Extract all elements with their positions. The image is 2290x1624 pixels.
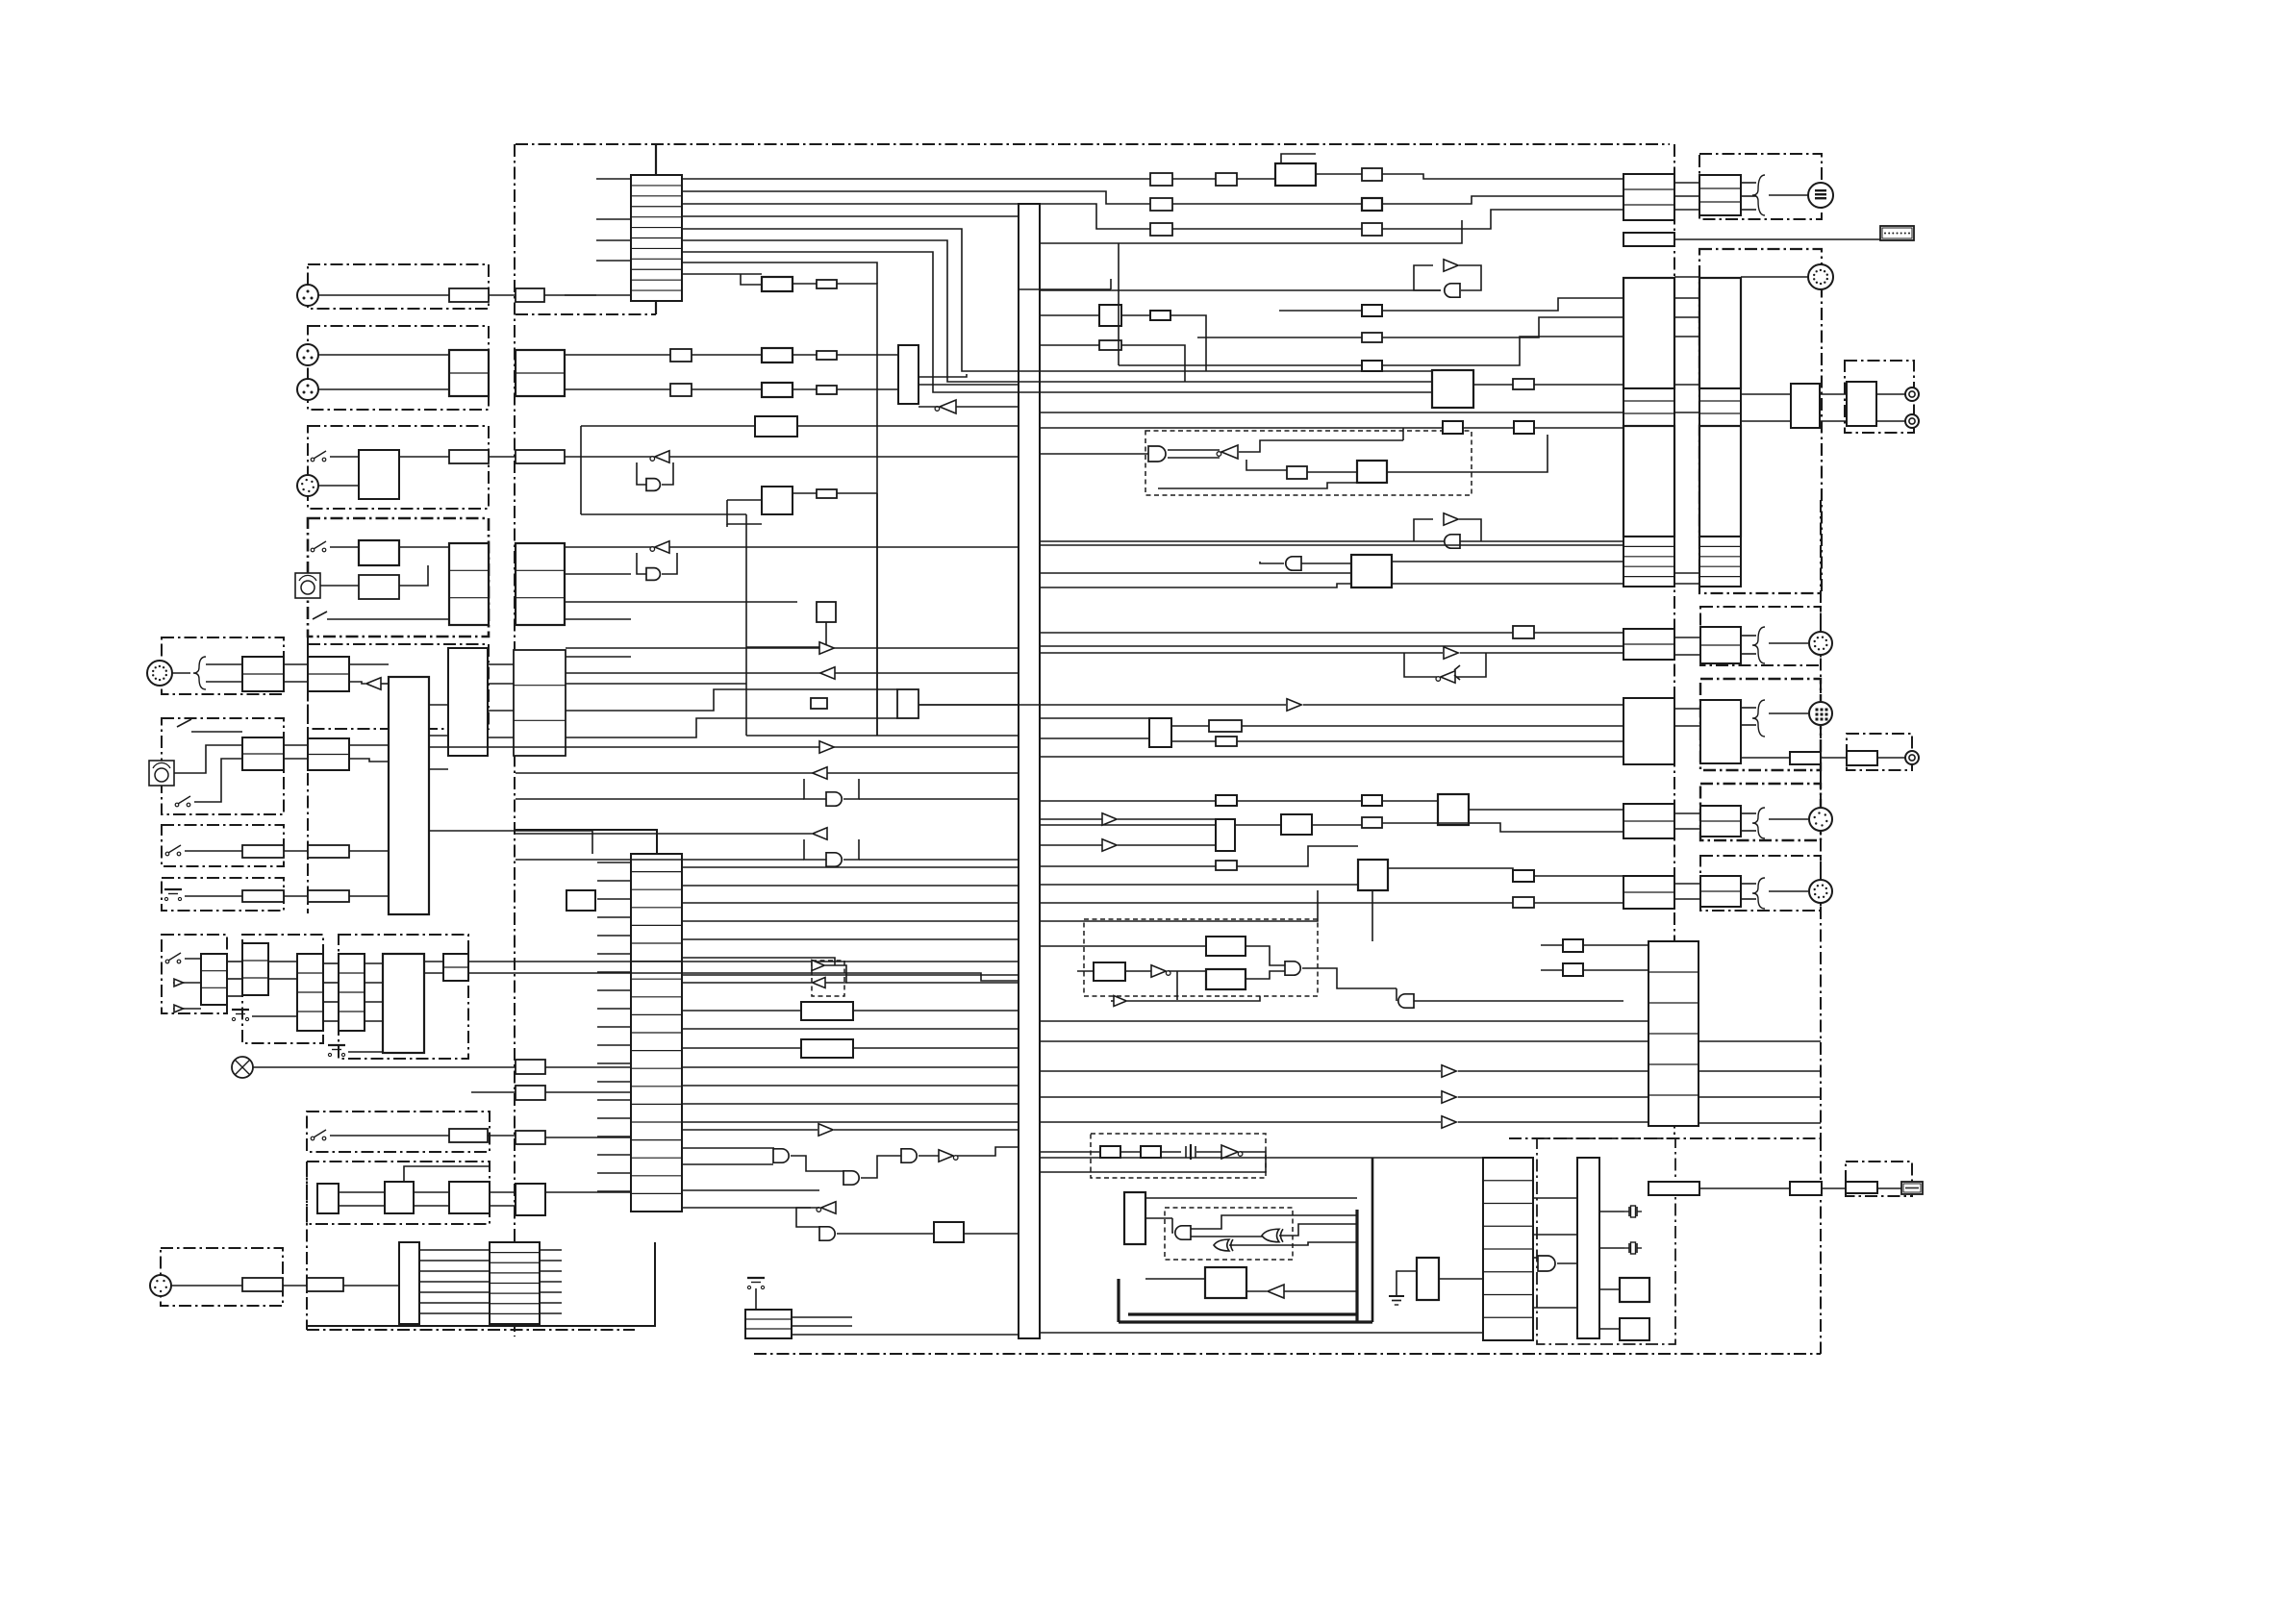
wire u2 stub <box>597 1081 631 1083</box>
record eq box <box>1432 370 1473 408</box>
wire row765 <box>746 735 1019 737</box>
wire vertical 776 <box>745 514 747 736</box>
wire dac in <box>741 274 762 285</box>
wire t1b <box>1172 178 1216 180</box>
wire lg in <box>1172 1218 1173 1233</box>
wire u2 stub <box>597 880 631 882</box>
wire j3c <box>692 388 762 390</box>
wire ka2 <box>227 978 242 980</box>
wire t2b <box>1237 178 1275 180</box>
wire u1 in1 <box>596 178 631 180</box>
wire lvl out <box>919 704 1019 706</box>
connector J16 rca <box>1905 387 1919 401</box>
wire vr1b <box>399 565 428 586</box>
wire dub out3 <box>381 683 389 685</box>
wire br c <box>1877 1187 1901 1189</box>
wire j1b <box>489 294 516 296</box>
wire mpx in <box>1040 945 1206 947</box>
wire rr7b <box>1382 800 1438 802</box>
input amp block <box>449 350 489 396</box>
wire auxr2 <box>566 683 746 685</box>
wire rr10b <box>1534 875 1623 877</box>
power sub box <box>1620 1318 1649 1340</box>
wire dly a <box>853 1010 1019 1012</box>
wire j2e <box>837 354 898 356</box>
wire u2 stub <box>597 1117 631 1119</box>
nand gate lg1 <box>1175 1226 1191 1239</box>
connector block P2 low1 <box>1700 627 1741 663</box>
wire mpx feed <box>1077 970 1094 972</box>
wire row323 r <box>1279 310 1362 312</box>
buffer rm1 <box>1444 260 1458 271</box>
wire ka3 <box>227 995 242 997</box>
wire rr6b <box>1237 800 1362 802</box>
wire row867 <box>516 833 812 835</box>
resistor br1 <box>1790 1182 1822 1195</box>
wire servo3 <box>1392 583 1623 585</box>
wire j2b <box>565 354 670 356</box>
mpx filter A <box>1206 937 1246 956</box>
wire gd double <box>1168 449 1220 451</box>
wire vertical 756 <box>726 524 728 527</box>
wire row520 in <box>727 499 762 501</box>
wire fanout6 <box>540 1302 562 1304</box>
pot VR1 <box>295 573 320 598</box>
wire pw5 <box>490 1191 516 1193</box>
wire cnt in <box>1145 1197 1357 1199</box>
connector block P1 rows <box>1623 174 1674 220</box>
wire s4b <box>284 850 308 852</box>
shield boundary xlr1 <box>308 264 489 309</box>
resistor r11 <box>516 1060 545 1074</box>
shield boundary out2 <box>1700 679 1821 770</box>
bus main <box>1019 204 1040 1338</box>
wire ke2 <box>424 972 443 974</box>
key block B <box>242 943 268 995</box>
wire row626 <box>565 601 797 603</box>
resistor rr4 <box>1209 720 1242 732</box>
wire u1 row6 <box>682 240 1432 382</box>
xor gate lg2 <box>1262 1229 1283 1242</box>
wire kd4 <box>365 1020 383 1022</box>
wire u1 row4 <box>682 215 1019 217</box>
inverter rv2 <box>1102 839 1117 851</box>
resistor rr5 <box>1216 737 1237 746</box>
wire j1c <box>544 294 631 296</box>
shield boundary out3 <box>1700 784 1821 840</box>
connector block P1 low3 <box>1623 804 1674 838</box>
wire j2d <box>793 354 817 356</box>
wire p3 box1 <box>1583 944 1648 946</box>
wire pll out <box>1316 173 1362 175</box>
wire j1 <box>318 294 449 296</box>
filter box <box>516 288 544 302</box>
resistor r5 <box>449 450 489 463</box>
keyboard encoder <box>383 954 424 1053</box>
IC U2 system control <box>631 854 682 1212</box>
mute symbol <box>313 612 327 619</box>
line out jack box <box>1847 751 1877 765</box>
wire out3 d <box>1741 830 1756 832</box>
switch S2 <box>311 541 326 552</box>
wire s6 <box>330 1135 449 1137</box>
wire r12b <box>545 1091 631 1093</box>
shield boundary right-main <box>1699 249 1822 593</box>
wire u2 right a6 <box>682 958 835 965</box>
wire b3 <box>348 1051 383 1053</box>
wire u2 right a10 <box>682 1047 801 1049</box>
meter box <box>1846 1182 1877 1193</box>
battery B2 <box>232 1010 249 1021</box>
buffer u2b <box>818 1124 833 1136</box>
motor box <box>1205 1267 1246 1298</box>
wire j7 <box>171 1285 242 1287</box>
wire p1p2 g <box>1674 384 1699 386</box>
wire m5b <box>1382 317 1623 337</box>
wire rca1 c <box>1877 757 1905 759</box>
wire out1 c <box>1741 635 1756 637</box>
connector J3 xlr <box>297 379 318 400</box>
wire led1 <box>185 958 201 960</box>
wire osc c <box>1196 1151 1221 1153</box>
wire dub out1 <box>349 663 389 665</box>
resistor r1 <box>670 349 692 362</box>
shield boundary out1 <box>1700 607 1821 665</box>
resistor rr10 <box>1513 870 1534 882</box>
rec out box <box>1791 384 1820 428</box>
wire u2 stub <box>597 1008 631 1010</box>
wire hp4 <box>1769 194 1808 196</box>
wire remote long <box>1674 238 1880 240</box>
wire out3 e <box>1769 818 1808 820</box>
wire mpx out <box>1302 968 1397 988</box>
inverter mon <box>935 400 956 413</box>
mpx box B <box>1094 962 1125 981</box>
phono amp block b <box>516 543 565 625</box>
battery B3 <box>328 1045 345 1057</box>
resistor r8 <box>308 845 349 858</box>
inverter di1 <box>1217 445 1238 459</box>
wire timer out3 <box>429 768 448 770</box>
wire row831b <box>859 798 1019 800</box>
buffer p32 <box>1442 1091 1456 1103</box>
counter box <box>1124 1192 1145 1244</box>
buffer g5b <box>939 1150 958 1162</box>
wire u2 stub <box>597 1136 631 1137</box>
wire auxr4 <box>566 718 897 737</box>
pot VR2 <box>149 761 174 786</box>
wire mpx loop <box>1176 971 1178 1000</box>
connector J17 rca <box>1905 414 1919 428</box>
inverter mid2 <box>820 667 835 679</box>
wire row433 l <box>581 425 755 427</box>
shield boundary meter <box>1537 1138 1675 1344</box>
wire s1 <box>330 456 359 458</box>
wire row674 <box>566 647 1019 649</box>
wire ke1 <box>424 961 443 962</box>
wire g6 out <box>837 1233 934 1235</box>
wire row768 <box>1040 737 1149 739</box>
wire rm3 loop <box>1414 519 1433 541</box>
connector J6 crosshair <box>232 1057 253 1078</box>
shield boundary battery-section <box>162 878 284 911</box>
wire p3 out1 <box>1699 1040 1821 1042</box>
wire diode out <box>1457 653 1486 677</box>
shield boundary din5 <box>161 1248 283 1306</box>
shield boundary headphone-top <box>1699 154 1822 219</box>
buffer osc <box>1221 1145 1243 1159</box>
wire bias out1 <box>1388 868 1513 876</box>
wire s1d <box>565 456 654 458</box>
shield boundary line-in <box>308 426 489 509</box>
wire j5 <box>172 672 190 674</box>
monitor block b <box>308 738 349 770</box>
connector J13 rca <box>1905 751 1919 764</box>
wire rm3 loop2 <box>1459 519 1481 541</box>
wire u2 stub <box>597 953 631 955</box>
wire u1 row5 <box>682 229 1432 371</box>
shield boundary xlr23 <box>308 326 489 410</box>
led D2 <box>173 1005 185 1012</box>
shield boundary pot-section <box>162 718 284 814</box>
wire mon <box>956 406 1019 408</box>
wire row831 <box>516 798 804 800</box>
board boundary main <box>516 143 1670 145</box>
wire pcb out1 <box>792 1316 852 1318</box>
wire row672 <box>1040 645 1623 647</box>
wire s6b <box>488 1135 516 1137</box>
wire u2 stub <box>597 1190 631 1192</box>
wire out1 a <box>1674 637 1699 638</box>
wire p32b <box>1458 1096 1648 1098</box>
wire u2 stub <box>597 971 631 973</box>
shield boundary key-section <box>242 935 323 1043</box>
connector J14 aux out <box>1809 808 1832 831</box>
wire kd1 <box>365 962 383 964</box>
wire vr1 <box>320 585 359 587</box>
key block D <box>339 954 365 1031</box>
wire j5b <box>206 681 242 683</box>
resistor t1 <box>1150 173 1172 186</box>
connector J7 din5 <box>150 1275 171 1296</box>
wire u2 right a17 <box>682 1147 774 1149</box>
wire s3 <box>194 759 242 802</box>
wire rm5 <box>1301 562 1351 564</box>
wire p3 out2 <box>1699 1070 1821 1072</box>
board boundary left vertical <box>514 144 516 1337</box>
wire t3b <box>1382 174 1623 179</box>
resistor midc <box>811 698 827 709</box>
wire s1e <box>669 456 1019 458</box>
timer block <box>389 677 429 914</box>
wire rcaP mid1 <box>1820 393 1847 395</box>
shield boundary out4 <box>1700 856 1821 911</box>
resistor t8 <box>817 280 837 288</box>
display block <box>1577 1158 1599 1338</box>
aux block b <box>514 650 566 756</box>
wire g5 out <box>919 1155 939 1157</box>
wire out2 e <box>1769 712 1808 714</box>
resistor rr8 <box>1362 817 1382 828</box>
connector block P2 low4 <box>1700 876 1741 907</box>
wire kb2 <box>268 978 297 980</box>
wire g5b out <box>957 1147 1019 1156</box>
wire out3 c <box>1741 812 1756 814</box>
wire row894b <box>859 859 1019 861</box>
wire mpx2 <box>1111 1000 1114 1002</box>
wire dub1 <box>284 663 308 665</box>
wire fan2 <box>419 1260 490 1262</box>
wire out4 b <box>1674 898 1699 900</box>
wire bus row 567 <box>1040 544 1623 546</box>
wire pw1 <box>339 1191 385 1193</box>
sensor box <box>934 1222 964 1242</box>
resistor d0 <box>1443 421 1463 434</box>
wire fanout5 <box>540 1291 562 1293</box>
wire pw8 <box>404 1166 490 1182</box>
wire muxa2 <box>1171 740 1216 742</box>
wire rm loop2 <box>1459 265 1481 290</box>
wire xh <box>253 1066 516 1068</box>
shield boundary led-section <box>162 935 227 1013</box>
meter long box <box>1648 1182 1699 1195</box>
wire row317 <box>1040 314 1099 316</box>
crystal X1 <box>1624 1206 1642 1217</box>
multi box m1 <box>1099 305 1121 326</box>
wire row359 <box>1040 344 1099 346</box>
wire row700 <box>566 672 1019 674</box>
wire out1 d <box>1741 653 1756 655</box>
brace out4 <box>1752 878 1765 909</box>
wire keyout1 <box>468 961 1019 962</box>
wire u2 right a1 <box>682 866 1019 868</box>
wire hp1 <box>1741 182 1756 184</box>
power block b <box>385 1182 414 1213</box>
wire t5b <box>1382 196 1623 204</box>
gate loop line <box>637 462 646 485</box>
wire rr11b <box>1534 902 1623 904</box>
wire u1 in3 <box>596 239 631 241</box>
wire rr2b <box>1460 652 1623 654</box>
wire s1c <box>489 456 516 458</box>
wire u2 right a2 <box>682 885 1019 887</box>
wire fan4 <box>419 1281 490 1283</box>
wire kc1 <box>323 962 339 964</box>
resistor r14 <box>516 1131 545 1144</box>
connector J10 sync <box>1808 264 1833 289</box>
wire gnd1w <box>1397 1271 1417 1285</box>
led D1 <box>173 979 185 987</box>
wire m7b <box>1534 384 1623 386</box>
and gate rm2 <box>1445 284 1460 297</box>
board boundary right vertical <box>1673 144 1675 1138</box>
wire dub out2 <box>349 682 365 684</box>
wire thick v1 <box>1355 1210 1358 1322</box>
wire u2 stub <box>597 898 631 900</box>
wire mon out1 <box>349 744 389 746</box>
wire u2 stub <box>597 935 631 937</box>
wire motor b <box>1246 1290 1267 1292</box>
wire row895 <box>1040 865 1216 867</box>
wire row879 <box>1040 844 1102 846</box>
IC U1 input selector <box>631 175 682 301</box>
wire row894 <box>516 859 804 861</box>
wire rcaP mid2 <box>1820 420 1847 422</box>
pll loop <box>1281 154 1316 163</box>
wire p1p2 f <box>1674 336 1699 337</box>
wire br row <box>1699 1187 1790 1189</box>
balance amp b <box>762 383 793 397</box>
shield boundary bottom-switch <box>307 1112 490 1152</box>
wire auxr3 <box>566 689 897 711</box>
resistor r15 <box>307 1278 343 1291</box>
wire dac out <box>793 283 817 285</box>
wire pw2 <box>339 1205 385 1207</box>
inverter mid4 <box>813 767 827 779</box>
wire req out <box>1473 384 1513 386</box>
wire row804 <box>516 772 1019 774</box>
wire j3d <box>793 388 817 390</box>
resistor rr1 <box>1513 626 1534 638</box>
board boundary u1 bottom <box>516 313 656 315</box>
switch S5 <box>165 953 181 963</box>
wire aux4 <box>488 737 514 738</box>
wire u2 right a5 <box>682 938 1019 940</box>
wire g1 <box>662 462 673 485</box>
wire row563 <box>1040 540 1623 542</box>
wire mpx a <box>1246 946 1286 965</box>
wire row920 <box>1040 884 1358 886</box>
wire row1204 <box>1040 1157 1483 1159</box>
wire sync2 <box>1674 276 1699 278</box>
wire kc2 <box>323 982 339 984</box>
dashed group osc <box>1091 1134 1266 1178</box>
wire lg2 out <box>1279 1224 1357 1236</box>
resistor rr7 <box>1362 795 1382 806</box>
and gate g2 <box>646 568 660 581</box>
connector J2 xlr <box>297 344 318 365</box>
wire adc out <box>919 374 967 377</box>
wire pcb out2 <box>792 1325 852 1327</box>
inverter rv1 <box>1102 813 1117 825</box>
wire p3 box2 <box>1583 969 1648 971</box>
wire dub2 <box>284 681 308 683</box>
wire motor in <box>1145 1278 1205 1280</box>
wire disp mid <box>1533 1197 1577 1199</box>
pll box <box>1275 163 1316 186</box>
wire br b <box>1822 1187 1846 1189</box>
wire p1p2 h <box>1674 412 1699 413</box>
wire disp g <box>1533 1257 1538 1259</box>
level det box <box>897 689 919 718</box>
rec level box <box>359 540 399 565</box>
wire row827 <box>1040 800 1216 802</box>
wire row569b <box>669 546 1019 548</box>
wire osc a <box>1120 1151 1141 1153</box>
wire p3 out4 <box>1699 1122 1821 1124</box>
wire row445 <box>1388 427 1623 429</box>
dub in block b <box>308 657 349 691</box>
wire rr9b <box>1237 846 1358 866</box>
ground gnd1 <box>1389 1285 1404 1305</box>
wire u2 right a3 <box>682 902 1019 904</box>
balance amp <box>762 348 793 362</box>
delay box A <box>801 1002 853 1020</box>
wire row302 <box>1040 289 1441 291</box>
resistor d0b <box>1514 421 1534 434</box>
inverter mid6 <box>813 828 827 839</box>
wire loop 520 <box>727 500 762 524</box>
